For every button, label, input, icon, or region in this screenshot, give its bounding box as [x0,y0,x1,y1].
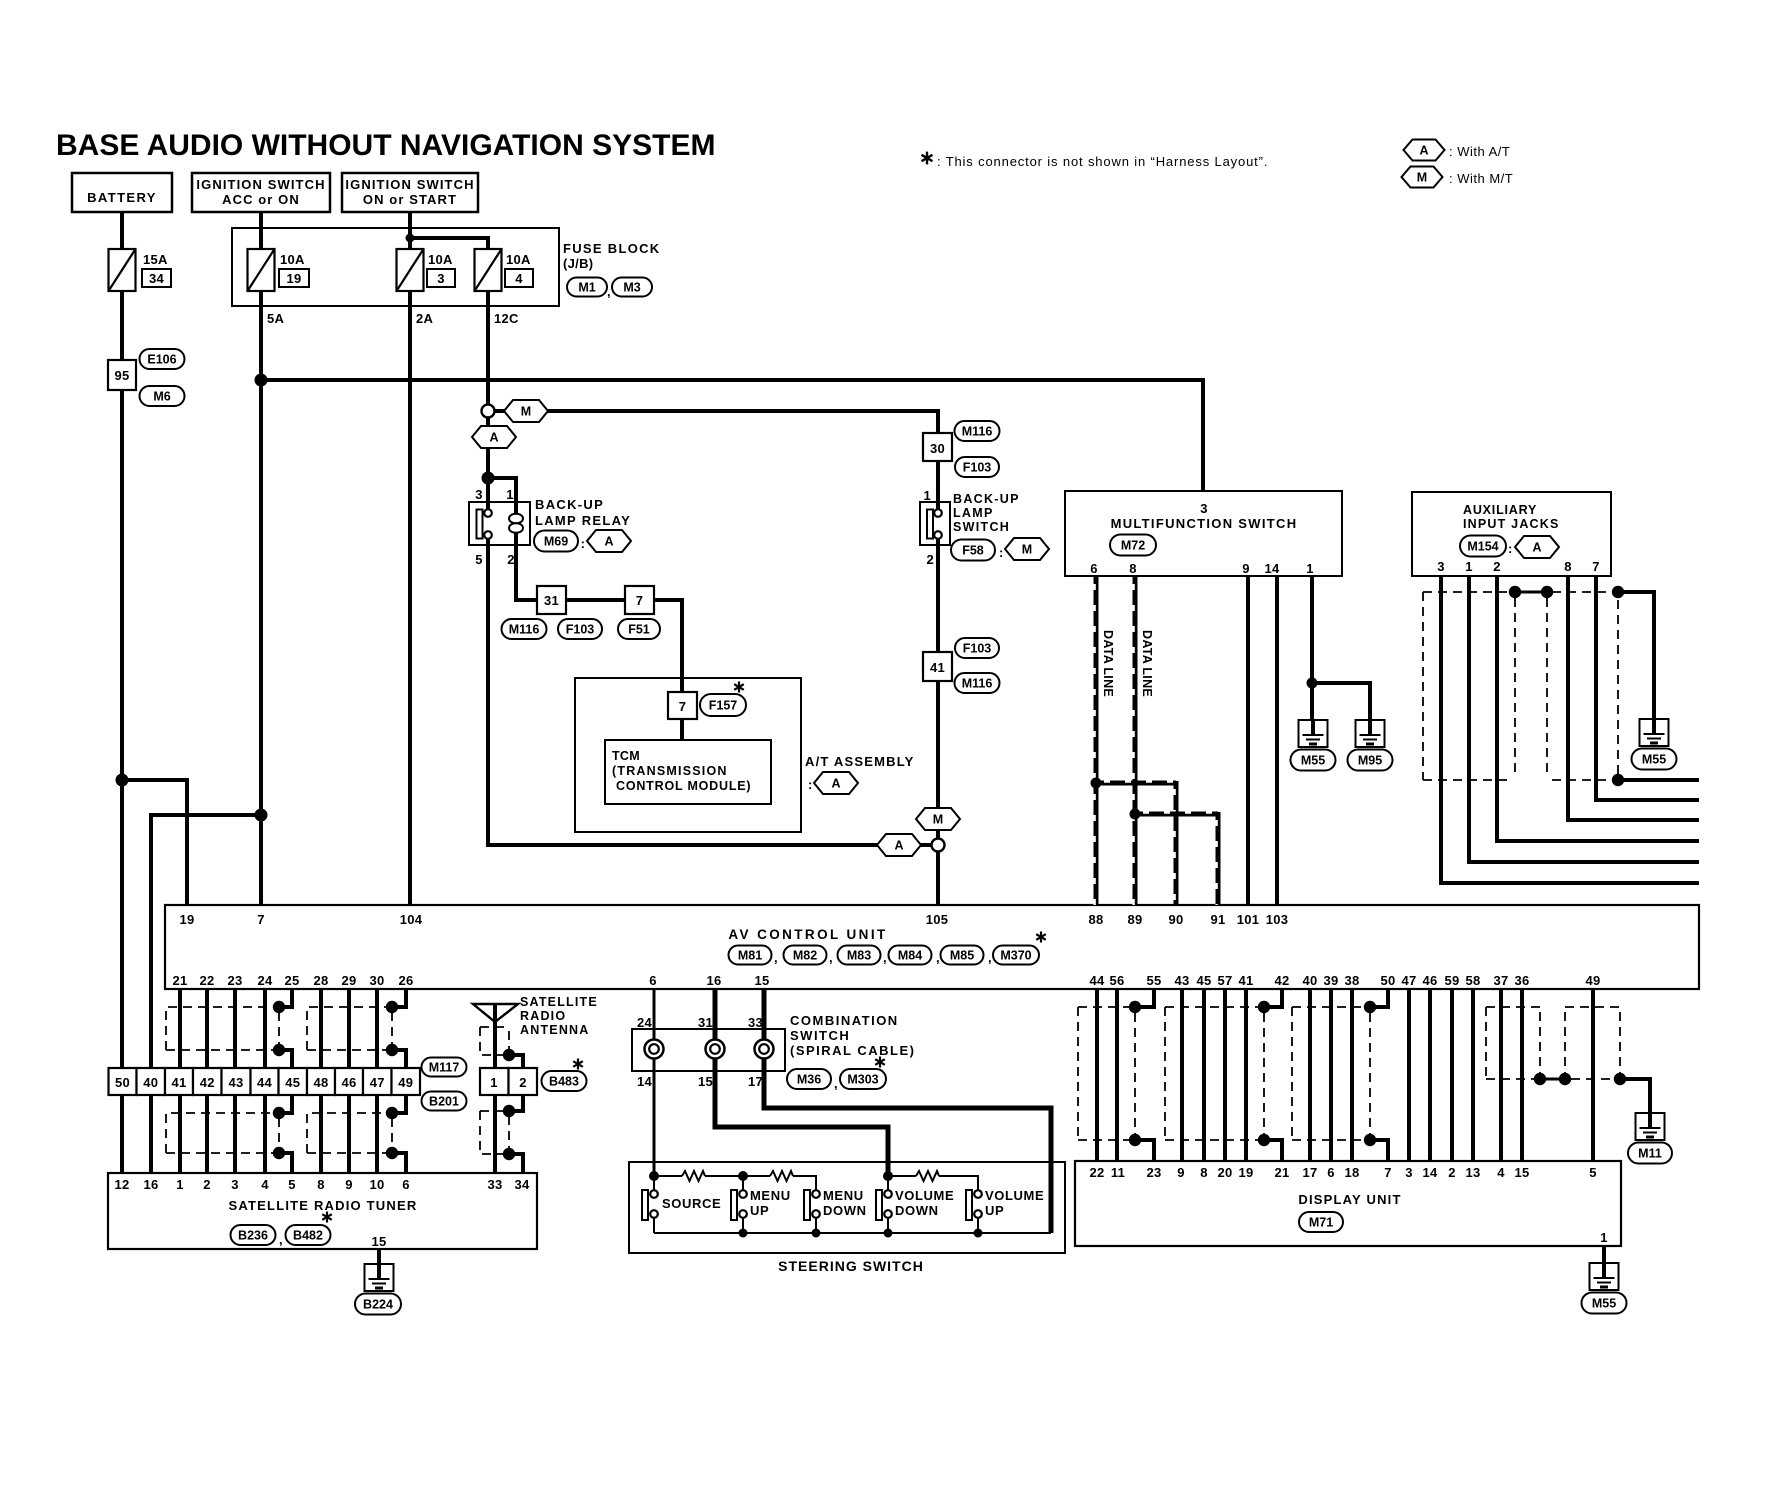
multifunction switch box [1065,491,1342,576]
svg-text::: : [1508,541,1513,556]
svg-text:33: 33 [748,1015,763,1030]
svg-text:MENU: MENU [823,1188,864,1203]
svg-text:F103: F103 [963,642,992,656]
svg-text:2A: 2A [416,311,434,326]
wire AV pin 16 to combination switch pin 31 [713,990,718,1029]
svg-text:5: 5 [475,552,483,567]
svg-text:1: 1 [1306,561,1314,576]
svg-text::: : [999,545,1004,560]
steering switch bottom bus dots [739,1229,748,1238]
hexagon A on relay pin5 line [877,834,921,856]
svg-text:1: 1 [1600,1230,1608,1245]
svg-text:VOLUME: VOLUME [895,1188,954,1203]
combination switch (spiral cable) box [632,1029,785,1071]
svg-text:DOWN: DOWN [895,1203,939,1218]
fuse 4 10A ON [475,249,502,291]
svg-text:56: 56 [1109,973,1124,988]
svg-text:SATELLITE: SATELLITE [520,995,598,1009]
wire AV pins 37/36 to display pins 4/15 [1499,990,1503,1161]
svg-text:7: 7 [257,912,265,927]
svg-text:2: 2 [1448,1165,1456,1180]
wire AV pin 23 to tuner pin 3 [233,990,237,1173]
svg-text:89: 89 [1127,912,1142,927]
svg-text:M3: M3 [623,281,640,295]
steering switch bottom bus [654,1232,1051,1234]
hexagon M on back-up switch line [916,808,960,830]
wire AV pin 55 shield drain to display pin 23 [1135,990,1154,1007]
fuse 34 15A battery [109,249,136,291]
svg-text:B224: B224 [363,1298,393,1312]
svg-text:6: 6 [402,1177,410,1192]
ignition switch ACC or ON box [192,173,330,212]
svg-text:F58: F58 [962,544,984,558]
svg-text:4: 4 [515,271,523,286]
svg-text:103: 103 [1266,912,1289,927]
shield dashes display group 43-45-57-41 [1164,1007,1166,1140]
svg-text:M154: M154 [1467,540,1498,554]
ground B224 [365,1264,394,1291]
svg-text:39: 39 [1323,973,1338,988]
svg-text:B482: B482 [293,1229,323,1243]
svg-text:: This connector is not shown: : This connector is not shown in “Harnes… [937,154,1268,169]
svg-text:13: 13 [1465,1165,1480,1180]
legend hexagon M = With M/T [1402,167,1443,188]
wire branch ACC line to tuner pin 16 [151,815,261,1173]
wire aux pin 8 to AV unit right edge [1568,576,1699,820]
svg-text:88: 88 [1088,912,1103,927]
steering switch VOLUME DOWN [883,1171,893,1181]
combination switch connectors M36/M303 [787,1069,831,1089]
relay contact bar [477,510,483,539]
svg-text:,: , [988,950,992,965]
note: connector not shown in harness layout [922,152,933,165]
satellite radio antenna symbol [473,1004,518,1022]
svg-text:45: 45 [285,1075,300,1090]
svg-text:M84: M84 [898,949,922,963]
wire AV pin 30 to tuner pin 10 [375,990,379,1173]
svg-text:2: 2 [1493,559,1501,574]
wire aux pin 3 to AV unit right edge [1441,576,1699,883]
svg-text:FUSE BLOCK: FUSE BLOCK [563,241,661,256]
svg-text:40: 40 [143,1075,158,1090]
junction dot relay feed [482,472,495,485]
svg-text:49: 49 [1585,973,1600,988]
svg-text:M116: M116 [962,425,993,439]
wire combination switch pin 14 to steering switch SOURCE [653,1071,656,1176]
svg-text:M85: M85 [950,949,974,963]
svg-text:25: 25 [284,973,299,988]
svg-text:1: 1 [176,1177,184,1192]
svg-text:46: 46 [341,1075,356,1090]
wire branch to relay coil pin 1 [488,478,516,516]
svg-text:43: 43 [1174,973,1189,988]
svg-text:34: 34 [514,1177,530,1192]
wire AV pin 24 to tuner pin 4 [263,990,267,1173]
svg-text:33: 33 [487,1177,502,1192]
svg-text:40: 40 [1302,973,1317,988]
legend hexagon A = With A/T [1404,140,1445,161]
svg-text:14: 14 [1264,561,1280,576]
wire AV pin 6 to combination switch pin 24 [653,990,656,1029]
wire multifunction pin 14 to AV pin 103 [1275,576,1279,905]
fuse block J/B box [232,228,559,306]
svg-text:42: 42 [200,1075,215,1090]
shield dashes around antenna feed upper [480,1026,509,1028]
TCM inner box [605,740,771,804]
svg-text:57: 57 [1217,973,1232,988]
TCM outer box (A/T assembly) [575,678,801,832]
shield dashes around tuner pins 8-10 wires lower [307,1113,387,1153]
wire antenna feed to tuner pin 33 [493,1005,497,1173]
display unit box [1075,1161,1621,1246]
svg-text:B201: B201 [429,1095,459,1109]
wire aux shield drain to AV unit right edge [1618,778,1699,782]
svg-text:F103: F103 [566,623,595,637]
svg-text:44: 44 [1089,973,1105,988]
svg-text:10: 10 [369,1177,384,1192]
svg-text:16: 16 [143,1177,158,1192]
shield dashes aux jacks group 8-7 [1552,591,1612,593]
svg-text:55: 55 [1146,973,1161,988]
svg-text:M116: M116 [962,677,993,691]
svg-text:5A: 5A [267,311,285,326]
svg-text:58: 58 [1465,973,1480,988]
svg-text:VOLUME: VOLUME [985,1188,1044,1203]
display shield dots [1129,1001,1141,1013]
svg-text:4: 4 [1497,1165,1505,1180]
svg-text:DISPLAY UNIT: DISPLAY UNIT [1298,1192,1401,1207]
fuse 3 10A ON [397,249,424,291]
svg-text:DATA LINE: DATA LINE [1101,630,1115,697]
svg-text:,: , [279,1232,283,1247]
wire display pin 1 to ground M55 [1602,1246,1606,1263]
wire aux shield drain link [1515,591,1547,594]
connector 30 M116/F103 on M/T line [923,433,952,461]
svg-text::: : [581,536,586,551]
svg-text:AUXILIARY: AUXILIARY [1463,503,1537,517]
svg-text:E106: E106 [147,353,176,367]
wire AV pin 26 shield drain to tuner pin 6 [392,990,406,1007]
svg-text:: With A/T: : With A/T [1449,144,1510,159]
svg-text:ON or START: ON or START [363,192,457,207]
svg-text:2: 2 [507,552,515,567]
wire aux pin 7 to AV unit right edge [1596,576,1699,800]
wire M/T line from connector to back-up lamp switch pin 1 [488,411,938,513]
wire AV pin 29 to tuner pin 9 [347,990,351,1173]
svg-text:STEERING SWITCH: STEERING SWITCH [778,1258,924,1274]
svg-text:,: , [883,950,887,965]
svg-text:MULTIFUNCTION SWITCH: MULTIFUNCTION SWITCH [1111,516,1298,531]
svg-text:M6: M6 [153,390,170,404]
svg-text:,: , [607,284,611,299]
svg-text:A: A [1532,541,1541,555]
wire main ACC bus to multifunction switch pin 3 [261,380,1203,491]
wire antenna shield drain to tuner pin 34 [509,1055,523,1068]
svg-text:12C: 12C [494,311,519,326]
svg-text:M370: M370 [1000,949,1031,963]
connector 7 F51 [625,586,654,614]
svg-text:A: A [1419,144,1428,158]
svg-text:ANTENNA: ANTENNA [520,1023,590,1037]
svg-text:M11: M11 [1638,1147,1662,1161]
wire AV pins 40/39/38 to display pins 17/6/18 [1308,990,1312,1161]
svg-text:9: 9 [345,1177,353,1192]
svg-text:3: 3 [1437,559,1445,574]
antenna shield dots [503,1049,515,1061]
svg-text:43: 43 [228,1075,243,1090]
svg-text:F157: F157 [709,699,738,713]
svg-text:46: 46 [1422,973,1437,988]
wire display shield drain to ground M11 [1620,1079,1650,1113]
svg-text:47: 47 [1401,973,1416,988]
svg-text:SWITCH: SWITCH [953,520,1010,534]
svg-text:UP: UP [750,1203,769,1218]
wire 12C: fuse 4 down to back-up lamp relay [486,291,490,510]
svg-text:41: 41 [930,660,945,675]
svg-text:6: 6 [1090,561,1098,576]
svg-text:INPUT JACKS: INPUT JACKS [1463,517,1560,531]
svg-text:2: 2 [926,552,934,567]
wire AV pin 25 shield drain to tuner pin 5 [279,990,292,1007]
wire branch to ground M95 [1312,683,1370,720]
svg-text:6: 6 [1327,1165,1335,1180]
relay contact circles pins 3/5 [484,509,492,517]
connector 31 M116/F103 [537,586,566,614]
svg-text:M303: M303 [847,1073,878,1087]
svg-text:95: 95 [114,368,129,383]
svg-text:M117: M117 [429,1061,460,1075]
svg-text:A: A [894,839,903,853]
shield dashes around antenna feed lower [480,1110,504,1112]
steering switch MENU DOWN [804,1190,810,1220]
ground M55 multifunction [1299,720,1328,747]
data line branch to AV pin 91 [1135,812,1218,817]
svg-text:36: 36 [1514,973,1529,988]
svg-text:B236: B236 [238,1229,268,1243]
svg-text:10A: 10A [280,252,305,267]
fuse 19 10A ACC [248,249,275,291]
wire relay coil pin 2 to TCM connector 7 [516,530,682,740]
svg-text:11: 11 [1111,1165,1125,1180]
svg-text:41: 41 [1238,973,1253,988]
svg-text:14: 14 [1422,1165,1438,1180]
shield dashes display group 49 [1565,1006,1620,1008]
ignition switch ON or START box [342,173,478,212]
svg-text:30: 30 [930,441,945,456]
svg-text:F51: F51 [628,623,650,637]
svg-text:9: 9 [1242,561,1250,576]
wire battery feed: battery to fuse 34 to tuner pin 12 [120,212,124,1173]
svg-text:101: 101 [1237,912,1260,927]
svg-text:15A: 15A [143,252,168,267]
fuse block connectors M1 M3 [567,278,607,297]
svg-text:,: , [936,950,940,965]
svg-text:45: 45 [1196,973,1211,988]
svg-text:M71: M71 [1309,1216,1333,1230]
svg-text:16: 16 [706,973,721,988]
svg-text:3: 3 [437,271,445,286]
svg-text:30: 30 [369,973,384,988]
wire AV pin 21 to tuner pin 1 [178,990,182,1173]
wire aux pin 2 to AV unit right edge [1497,576,1699,841]
svg-text:BATTERY: BATTERY [87,190,157,205]
svg-text:8: 8 [1129,561,1137,576]
junction dot battery branch [116,774,129,787]
svg-text:M72: M72 [1121,539,1145,553]
svg-text:LAMP RELAY: LAMP RELAY [535,513,631,528]
svg-text:90: 90 [1168,912,1183,927]
svg-text:49: 49 [398,1075,413,1090]
svg-text:M95: M95 [1358,754,1382,768]
svg-text:DATA LINE: DATA LINE [1140,630,1154,697]
multifunction switch connector M72 [1110,535,1156,556]
wire branch in fuse block to fuse 4 [410,238,488,249]
back-up lamp relay box [469,502,530,545]
svg-text:37: 37 [1493,973,1508,988]
junction dot data line 1 [1091,778,1102,789]
svg-text:AV CONTROL UNIT: AV CONTROL UNIT [728,927,887,942]
wire aux pin 1 to AV unit right edge [1469,576,1699,862]
ground M55 display [1590,1263,1619,1290]
wire combination switch pin 24 through contact [653,1029,656,1071]
shield dashes around tuner pins 1-4 wires lower [166,1113,275,1153]
steering switch top bus with resistors [654,1175,682,1177]
svg-text:10A: 10A [506,252,531,267]
svg-text:19: 19 [1238,1165,1253,1180]
svg-text:24: 24 [637,1015,653,1030]
steering switch box [629,1162,1065,1253]
svg-text:M69: M69 [544,535,568,549]
svg-text:105: 105 [926,912,949,927]
shield dashes around AV pins 28-30 wires upper [307,1007,387,1050]
svg-text:26: 26 [398,973,413,988]
svg-text:2: 2 [519,1075,527,1090]
svg-text:UP: UP [985,1203,1004,1218]
data line: multifunction pin 6 to AV pin 88 [1094,576,1099,905]
svg-text:1: 1 [1465,559,1473,574]
steering switch vertical stubs [653,1176,655,1193]
svg-text:M: M [1417,171,1427,185]
svg-text:B483: B483 [549,1075,579,1089]
svg-text:44: 44 [257,1075,273,1090]
svg-text:ACC or ON: ACC or ON [222,192,300,207]
svg-text:,: , [834,1076,838,1091]
svg-text:A/T ASSEMBLY: A/T ASSEMBLY [805,754,915,769]
svg-text:20: 20 [1217,1165,1232,1180]
svg-text:48: 48 [313,1075,328,1090]
svg-text:15: 15 [1514,1165,1529,1180]
svg-text:15: 15 [754,973,769,988]
display unit connector M71 [1299,1212,1343,1232]
svg-text:12: 12 [114,1177,129,1192]
svg-text:F103: F103 [963,461,992,475]
shield dashes display group 44-56 [1077,1007,1079,1140]
svg-text:23: 23 [1146,1165,1161,1180]
svg-text:28: 28 [313,973,328,988]
svg-text:SATELLITE RADIO TUNER: SATELLITE RADIO TUNER [229,1198,418,1213]
svg-text:7: 7 [636,593,644,608]
wire AV pin 50 shield drain to display pin 7 [1370,990,1388,1007]
wire display shield drain link [1540,1078,1565,1081]
shield dashes aux jacks group 3-1-2 [1422,592,1424,780]
svg-text:M81: M81 [738,949,762,963]
wire relay pin 5 to A/T connector to AV pin 105 [488,535,938,845]
svg-text:M82: M82 [793,949,817,963]
svg-text:22: 22 [199,973,214,988]
svg-text:M55: M55 [1301,754,1325,768]
connector ring on 12C wire [482,405,495,418]
svg-text:LAMP: LAMP [953,506,994,520]
svg-text:M: M [521,405,531,419]
svg-text:M: M [933,813,943,827]
relay coil [509,514,523,524]
svg-text:41: 41 [171,1075,186,1090]
svg-text::: : [808,777,813,792]
svg-text:24: 24 [257,973,273,988]
svg-text:17: 17 [1302,1165,1317,1180]
shield dashes around AV pins 21-24 wires upper [166,1007,275,1050]
svg-text:M1: M1 [578,281,595,295]
AV control unit connector ovals [729,946,772,965]
svg-text:5: 5 [288,1177,296,1192]
svg-text:31: 31 [544,593,559,608]
wire tuner pin 15 to ground B224 [377,1249,381,1264]
svg-text:1: 1 [923,488,931,503]
ground M11 display shield [1636,1113,1665,1140]
wire AV pins 44/56 to display pins 22/11 [1095,990,1099,1161]
svg-text:1: 1 [506,487,514,502]
wire multifunction pin 1 to ground M55 [1310,576,1314,720]
wire combination switch pin 17 to steering switch common return [764,1071,1051,1233]
svg-text:19: 19 [286,271,301,286]
wire AV pins 43/45/57/41 to display pins 9/8/20/19 [1180,990,1184,1161]
svg-text:3: 3 [1405,1165,1413,1180]
svg-text:50: 50 [115,1075,130,1090]
wire back-up lamp switch pin 2 down through connectors to AV pin 105 [936,535,940,905]
svg-text:8: 8 [1564,559,1572,574]
connector ring at AV pin 105 [932,839,945,852]
svg-text:IGNITION SWITCH: IGNITION SWITCH [196,177,325,192]
svg-text:: With M/T: : With M/T [1449,171,1513,186]
satellite radio tuner box [108,1173,537,1249]
svg-text:10A: 10A [428,252,453,267]
svg-text:CONTROL MODULE): CONTROL MODULE) [616,779,751,793]
svg-text:M83: M83 [847,949,871,963]
wire AV pin 42 shield drain to display pin 21 [1264,990,1282,1007]
svg-text:14: 14 [637,1074,653,1089]
shield dashes display group 40-39-38 [1291,1007,1293,1140]
steering switch VOLUME UP [966,1190,972,1220]
connector 95 E106/M6 [108,360,136,390]
svg-text:29: 29 [341,973,356,988]
svg-text:COMBINATION: COMBINATION [790,1013,899,1028]
svg-text:,: , [829,950,833,965]
svg-text:IGNITION SWITCH: IGNITION SWITCH [345,177,474,192]
aux jacks connector M154 : A [1460,536,1506,557]
wire ACC feed: ignition ACC through fuse 19 down to AV pin 7 [259,212,263,905]
svg-text:8: 8 [317,1177,325,1192]
auxiliary input jacks box [1412,492,1611,576]
svg-text:8: 8 [1200,1165,1208,1180]
hexagon A on 12C wire [472,426,516,448]
hexagon M on 12C wire [504,400,548,422]
svg-text:4: 4 [261,1177,269,1192]
svg-text:M: M [1022,543,1032,557]
wire multifunction pin 9 to AV pin 101 [1246,576,1250,905]
svg-text:23: 23 [227,973,242,988]
svg-text:7: 7 [1592,559,1600,574]
svg-text:17: 17 [748,1074,763,1089]
